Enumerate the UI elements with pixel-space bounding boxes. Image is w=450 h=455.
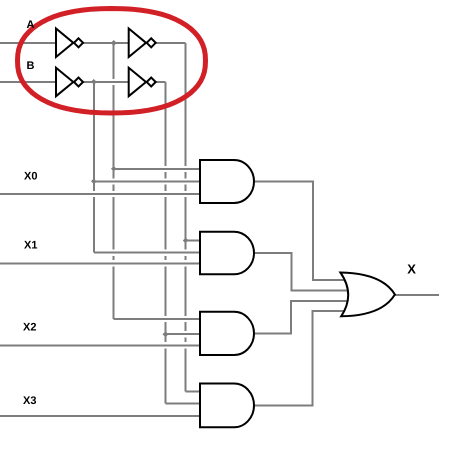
node junction B to AND3 bbox=[163, 331, 169, 337]
node junction B row bbox=[91, 79, 97, 85]
and-gate U7 (X2) bbox=[200, 312, 254, 355]
wire X1 input bbox=[0, 262, 202, 264]
inverter U2 bubble bbox=[147, 38, 156, 47]
node junction NOT-A to AND1 bbox=[111, 166, 117, 172]
wire net B into AND4 bbox=[166, 402, 203, 404]
node junction NOT-B to AND1 bbox=[91, 179, 97, 185]
wire NOT-B branch into AND1 bbox=[94, 181, 202, 183]
wire A2 output to vertical net A bbox=[155, 42, 186, 44]
svg-text:X: X bbox=[407, 262, 416, 277]
svg-text:X2: X2 bbox=[23, 322, 36, 334]
wire net A into AND4 bbox=[186, 390, 202, 392]
wire net A vertical drop bbox=[185, 43, 187, 391]
wire A input bbox=[0, 42, 56, 44]
wire net NOT-B into AND2 bbox=[94, 252, 202, 254]
annotation red ellipse around inverters bbox=[18, 9, 206, 114]
svg-text:X0: X0 bbox=[24, 171, 37, 183]
svg-text:X1: X1 bbox=[24, 240, 37, 252]
wire net NOT-A vertical drop bbox=[113, 43, 115, 319]
svg-text:A: A bbox=[27, 19, 35, 31]
wire net NOT-B vertical drop bbox=[93, 82, 95, 253]
wire OR output X bbox=[395, 294, 439, 296]
svg-text:X3: X3 bbox=[23, 395, 36, 407]
wire X0 input bbox=[0, 193, 202, 195]
wire NOT-A branch into AND1 bbox=[114, 168, 202, 170]
svg-text:B: B bbox=[27, 60, 35, 72]
node junction A row bbox=[111, 40, 117, 46]
wire AND3 output to OR input 3 bbox=[254, 301, 350, 333]
inverter U4 triangle (B second) bbox=[129, 68, 146, 97]
or-gate U9 bbox=[340, 273, 395, 317]
inverter U2 triangle (A second) bbox=[129, 29, 146, 58]
wire net B branch into AND3 bbox=[166, 333, 203, 335]
and-gate U6 (X1) bbox=[200, 232, 254, 275]
wire AND1 output to OR input 1 bbox=[254, 182, 349, 281]
wire net NOT-A into AND3 bbox=[114, 318, 202, 320]
and-gate U8 (X3) bbox=[200, 384, 254, 428]
wire A between inverters bbox=[83, 42, 130, 44]
wire B between inverters bbox=[83, 81, 130, 83]
wire net A branch into AND2 bbox=[186, 239, 202, 241]
wire AND2 output to OR input 2 bbox=[254, 253, 350, 290]
wire net B vertical drop bbox=[165, 82, 167, 403]
inverter U1 triangle (A first) bbox=[56, 29, 73, 58]
wire X2 input bbox=[0, 344, 202, 346]
inverter U4 bubble bbox=[147, 78, 156, 87]
wire AND4 output to OR input 4 bbox=[254, 311, 349, 405]
inverter U3 bubble bbox=[74, 78, 83, 87]
wire B input bbox=[0, 81, 56, 83]
inverter U1 bubble bbox=[74, 38, 83, 47]
wire X3 input bbox=[0, 415, 202, 417]
node junction A to AND2 bbox=[183, 238, 189, 244]
and-gate U5 (X0) bbox=[200, 160, 254, 203]
inverter U3 triangle (B first) bbox=[56, 68, 73, 97]
wire B2 output to vertical net B bbox=[155, 81, 166, 83]
